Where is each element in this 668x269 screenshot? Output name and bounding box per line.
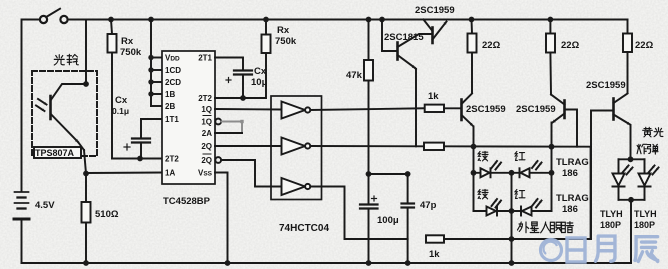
battery B1 4.5V	[14, 192, 29, 219]
svg-text:1Q: 1Q	[201, 105, 212, 114]
svg-text:22Ω: 22Ω	[635, 40, 654, 51]
node: 47k 100u junction	[366, 171, 372, 177]
wire: timing node 2T2	[112, 158, 162, 160]
label 光轮	[54, 54, 78, 65]
svg-text:Cx: Cx	[254, 66, 267, 77]
label 黄光 炸弹	[637, 127, 663, 154]
diode D3 green TLRAG186	[487, 199, 502, 216]
node: collector junction	[83, 81, 89, 87]
svg-text:2Q: 2Q	[201, 142, 212, 151]
svg-text:Cx: Cx	[115, 95, 128, 106]
svg-text:VSS: VSS	[198, 169, 213, 178]
diode D6 yellow TLYH180P	[639, 159, 659, 200]
svg-text:1T1: 1T1	[165, 115, 179, 124]
capacitor C4 47p	[402, 174, 415, 263]
svg-text:47k: 47k	[346, 70, 363, 81]
node: LED mid row2	[509, 208, 515, 214]
wire: 2Qbar to inverter 3 input	[221, 160, 281, 187]
diode D2 red TLRAG186	[520, 161, 542, 177]
wire: left branch battery to rail	[21, 20, 23, 192]
svg-text:0.1μ: 0.1μ	[112, 106, 129, 116]
transistor Q2 2SC1959 top	[424, 20, 447, 44]
svg-text:74HCTC04: 74HCTC04	[279, 223, 329, 234]
capacitor Cx2 10u	[226, 71, 252, 99]
node: 47p ground	[405, 260, 411, 266]
resistor R7	[424, 143, 444, 150]
svg-text:4.5V: 4.5V	[35, 200, 55, 211]
transistor Q5 2SC1959 right	[591, 94, 630, 240]
svg-text:1k: 1k	[428, 91, 439, 102]
svg-text:TLRAG: TLRAG	[556, 193, 589, 204]
inverter U2b	[282, 138, 311, 155]
wire: inverter1 output to 1k	[310, 108, 424, 110]
transistor Q3 2SC1959	[462, 94, 473, 126]
svg-text:2T2: 2T2	[165, 155, 179, 164]
svg-text:1B: 1B	[165, 90, 175, 99]
node: rail junction Q1 base feed	[379, 17, 385, 23]
svg-text:1CD: 1CD	[165, 66, 181, 75]
svg-text:Rx: Rx	[121, 36, 134, 47]
node: LED mid row1	[509, 170, 515, 176]
node: rail junction Rx2	[263, 17, 269, 23]
label 绿 row1	[478, 151, 488, 160]
svg-text:VDD: VDD	[165, 54, 180, 63]
wire: bottom row to Q5 base column	[444, 238, 591, 240]
node: VSS ground junction	[225, 260, 231, 266]
wire: 1A pin line	[86, 172, 162, 175]
wire: Q4 emitter to LED row	[551, 123, 553, 212]
box: 光轮 dashed enclosure	[32, 71, 97, 156]
node: rail junction 22R no2	[548, 17, 554, 23]
svg-text:2SC1815: 2SC1815	[384, 32, 424, 43]
svg-text:1Q: 1Q	[201, 118, 212, 127]
op-amp U1 TC4528BP dual monostable	[162, 51, 221, 184]
svg-text:2SC1959: 2SC1959	[516, 104, 556, 115]
node: 47p top junction	[405, 171, 411, 177]
node: 510 to ground	[83, 260, 89, 266]
resistor R8 1k	[426, 235, 444, 242]
svg-text:1A: 1A	[165, 169, 175, 178]
label 外星人眼睛	[518, 222, 574, 233]
wire: 2T2 pin to Rx2	[215, 53, 266, 98]
resistor Rx1 750k	[108, 20, 117, 159]
wire: 1Qbar feedback (grey)	[221, 120, 244, 133]
phototransistor TPS807A	[36, 84, 86, 174]
transistor Q4 2SC1959 mirrored	[551, 95, 577, 147]
svg-text:TLYH: TLYH	[600, 209, 623, 219]
svg-text:2B: 2B	[165, 102, 175, 111]
wire: VDD bus to IC pins	[151, 20, 162, 107]
wire: battery positive top rail	[22, 19, 40, 21]
wire: inverter2 output to R7	[310, 145, 424, 147]
svg-text:186: 186	[562, 168, 578, 179]
inverter U2c	[282, 178, 311, 195]
wire: bottom ground rail	[22, 262, 632, 264]
node: rail junction 22R no1	[469, 17, 475, 23]
node: emitter / 1A / 510 junction	[83, 171, 89, 177]
svg-text:22Ω: 22Ω	[482, 40, 501, 51]
node: 100u ground	[366, 260, 372, 266]
resistor 22R no2	[546, 20, 555, 95]
svg-text:2A: 2A	[202, 129, 212, 138]
diode D1 green TLRAG186	[481, 161, 502, 177]
node: Cx1 junction	[137, 156, 143, 162]
svg-text:TC4528BP: TC4528BP	[163, 196, 211, 207]
capacitor C3 100u electrolytic	[360, 174, 378, 263]
svg-text:750k: 750k	[275, 36, 297, 47]
wire: 1Q to inverter 1 input	[215, 108, 281, 111]
svg-text:180P: 180P	[600, 220, 621, 230]
svg-text:2CD: 2CD	[165, 78, 181, 87]
wire: VSS to ground	[215, 173, 228, 264]
label 绿 row2	[478, 189, 488, 198]
diode D4 red TLRAG186	[521, 199, 542, 216]
svg-text:Rx: Rx	[277, 25, 290, 36]
switch S1	[40, 9, 68, 23]
wire: 2Q to inverter 2 input	[215, 145, 281, 147]
wire: LED row 2	[474, 210, 552, 212]
wire: link 100u to 47p tops	[369, 173, 408, 175]
wire: Q1 emitter down	[415, 69, 417, 146]
node: rail junction Rx1	[108, 17, 114, 23]
wire: battery negative to ground rail	[21, 220, 23, 263]
node: rail junction VDD bus	[148, 17, 154, 23]
wire: 1k to Q3 base	[444, 107, 461, 109]
svg-text:100μ: 100μ	[377, 215, 399, 226]
resistor 22R no3	[623, 20, 632, 94]
watermark logo 日月辰	[541, 236, 658, 262]
wire: 2T1 to Cx2	[215, 58, 243, 71]
wire: LED mid column to ground	[511, 173, 513, 263]
svg-text:TPS807A: TPS807A	[35, 148, 75, 158]
svg-text:186: 186	[562, 204, 578, 215]
label 红 row1	[515, 151, 525, 160]
svg-text:2T2: 2T2	[198, 94, 212, 103]
wire: 2A pin stub	[215, 132, 242, 134]
svg-text:1k: 1k	[429, 249, 440, 260]
resistor R5 1k	[425, 105, 444, 112]
svg-text:2SC1959: 2SC1959	[586, 80, 626, 91]
node: Cx2 to 2T2 line	[240, 95, 246, 101]
wire: inverter3 output down to bottom row	[310, 187, 407, 240]
node: rail junction 47k	[366, 17, 372, 23]
op-amp U2 74HCTC04 hex inverter	[271, 96, 322, 200]
resistor Rx2 750k	[262, 20, 271, 54]
svg-text:2SC1959: 2SC1959	[415, 5, 455, 16]
svg-text:TLRAG: TLRAG	[556, 157, 589, 168]
label TPS807A	[34, 147, 81, 158]
wire: rail to phototransistor collector	[85, 20, 87, 85]
wire: rail to 2SC1815 base	[382, 20, 397, 52]
wire: LED row 1	[474, 172, 552, 174]
svg-text:2SC1959: 2SC1959	[466, 104, 506, 115]
capacitor Cx1 0.1u	[124, 119, 162, 159]
svg-text:TLYH: TLYH	[634, 209, 657, 219]
wire: base row line	[444, 145, 591, 147]
inverter U2a	[282, 102, 311, 119]
resistor 22R no1	[468, 20, 477, 94]
node: yellow LED top junction	[628, 156, 634, 162]
svg-text:2Q: 2Q	[201, 156, 212, 165]
wire: Q5 emitter to yellow LEDs	[630, 125, 632, 159]
transistor Q1 2SC1815	[398, 34, 432, 69]
svg-text:750k: 750k	[120, 47, 142, 58]
wire: yellow LED bottom to ground	[619, 199, 645, 201]
svg-text:180P: 180P	[634, 220, 655, 230]
svg-text:22Ω: 22Ω	[561, 40, 580, 51]
svg-text:2T1: 2T1	[198, 54, 212, 63]
resistor 510R	[82, 174, 91, 264]
resistor 47k	[364, 20, 373, 175]
svg-text:510Ω: 510Ω	[95, 209, 119, 220]
svg-text:47p: 47p	[420, 200, 437, 211]
diode D5 yellow TLYH180P	[613, 159, 645, 200]
wire: Q3 emitter to LED row	[473, 127, 475, 212]
label 红 row2	[515, 189, 525, 198]
